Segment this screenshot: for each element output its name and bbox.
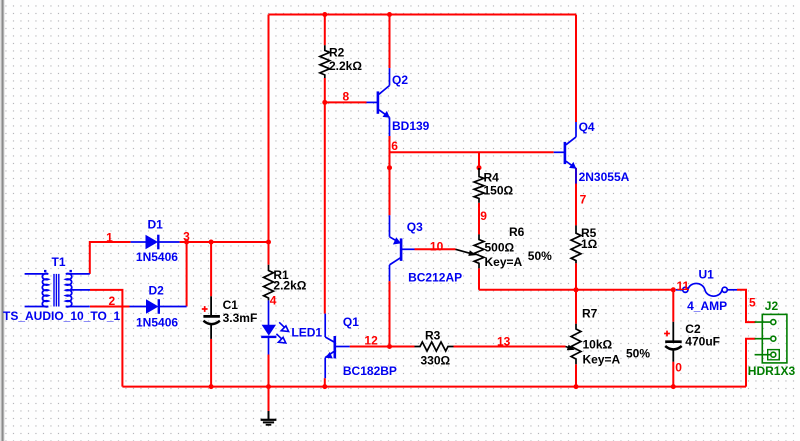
wire R5 bottom to net 11 xyxy=(575,263,577,290)
svg-text:LED1: LED1 xyxy=(291,326,322,340)
svg-text:5: 5 xyxy=(749,296,756,310)
resistor R5 xyxy=(571,225,581,263)
transistor Q3 (BC212AP PNP) xyxy=(390,215,415,281)
wire D2 cathode up to net 3 xyxy=(186,242,188,307)
svg-text:12: 12 xyxy=(364,333,378,347)
transistor Q1 (BC182BP NPN, mirrored) xyxy=(325,314,350,379)
node ground rail / C1 xyxy=(209,384,214,389)
svg-text:D1: D1 xyxy=(148,217,164,231)
transformer phase dots xyxy=(44,270,72,272)
node ground rail / LED1 xyxy=(266,384,271,389)
wire left vertical (net3 to top rail) xyxy=(268,15,270,265)
svg-text:8: 8 xyxy=(343,89,350,103)
wire net 7 (Q4 emitter to R5) xyxy=(575,168,577,225)
svg-text:R3: R3 xyxy=(425,329,441,343)
svg-text:R4: R4 xyxy=(484,171,500,185)
svg-text:50%: 50% xyxy=(626,347,650,361)
wire ground bottom rail xyxy=(122,386,746,388)
svg-text:0: 0 xyxy=(675,361,682,375)
svg-text:Q1: Q1 xyxy=(343,315,359,329)
svg-text:Key=A: Key=A xyxy=(583,353,621,367)
label Q2 xyxy=(392,73,430,133)
LED LED1 emission arrows xyxy=(276,322,288,343)
wire net 11 rail xyxy=(479,289,673,291)
connector J2 (HDR1X3) xyxy=(755,314,787,363)
node net6 Q3 branch xyxy=(387,165,392,170)
svg-text:4: 4 xyxy=(270,294,277,308)
svg-text:R2: R2 xyxy=(329,46,345,60)
node net12 Q3 collector xyxy=(387,344,392,349)
wire LED1 cathode to ground rail xyxy=(268,355,270,387)
wire Q3 collector down to net 12 xyxy=(389,281,391,346)
svg-text:HDR1X3: HDR1X3 xyxy=(748,364,796,378)
label R6 value xyxy=(485,225,553,269)
label Q3 xyxy=(407,220,462,284)
svg-text:500Ω: 500Ω xyxy=(485,240,515,254)
wire C2 bottom lead xyxy=(672,362,674,387)
wire Q4 collector from top rail xyxy=(575,15,577,123)
resistor R1 xyxy=(264,265,274,301)
svg-text:7: 7 xyxy=(580,192,587,206)
node top rail / Q2 collector xyxy=(387,12,392,17)
wire top positive rail xyxy=(269,14,577,16)
wire R2 top xyxy=(324,15,326,46)
node net6 R4 branch xyxy=(477,165,482,170)
capacitor C2 plus sign xyxy=(664,331,670,337)
svg-text:330Ω: 330Ω xyxy=(421,354,451,368)
label R3 value xyxy=(421,329,451,368)
wire Q1 emitter to ground rail xyxy=(324,378,326,386)
svg-text:2.2kΩ: 2.2kΩ xyxy=(273,279,306,293)
svg-text:D2: D2 xyxy=(149,284,165,298)
capacitor C1 xyxy=(203,296,220,339)
wire net 9 (R4 to R6) xyxy=(478,203,480,235)
svg-text:13: 13 xyxy=(497,334,511,348)
svg-text:Q2: Q2 xyxy=(392,73,408,87)
svg-text:150Ω: 150Ω xyxy=(484,183,514,197)
node net3 / D2 xyxy=(184,240,189,245)
svg-text:11: 11 xyxy=(677,279,690,293)
wire Q3 emitter to net 6 xyxy=(389,152,391,215)
wire R7 top xyxy=(575,290,577,324)
wire net 5 (fuse to J2 pin1) xyxy=(737,290,756,322)
transformer T1 xyxy=(25,274,90,307)
label R2 value xyxy=(329,46,362,73)
svg-text:BC212AP: BC212AP xyxy=(408,271,462,285)
LED LED1 xyxy=(261,300,276,354)
svg-text:U1: U1 xyxy=(699,267,715,281)
svg-text:10: 10 xyxy=(430,240,444,254)
transistor Q2 (BD139 NPN) xyxy=(367,68,390,136)
svg-text:T1: T1 xyxy=(52,255,66,269)
diode D1 xyxy=(131,235,180,250)
svg-text:2.2kΩ: 2.2kΩ xyxy=(329,59,362,73)
wire ground stub xyxy=(268,387,270,412)
svg-text:1N5406: 1N5406 xyxy=(136,250,178,264)
wire J2 pin2 to ground rail xyxy=(746,339,756,387)
wire C1 top lead xyxy=(210,242,212,296)
wire net 10 (Q3 base to R6 wiper) xyxy=(415,248,456,250)
wire net 8 (R2 bottom / Q2 base / Q1 collector) xyxy=(324,78,326,102)
potentiometer R6 wiper arrow xyxy=(456,249,477,256)
svg-text:470uF: 470uF xyxy=(685,334,720,348)
node net3 / R1 xyxy=(266,240,271,245)
wire C1 bottom lead xyxy=(210,339,212,387)
svg-text:1Ω: 1Ω xyxy=(581,237,598,251)
node net3 / C1 xyxy=(209,240,214,245)
svg-text:50%: 50% xyxy=(528,249,552,263)
svg-text:Q4: Q4 xyxy=(579,120,595,134)
svg-text:TS_AUDIO_10_TO_1: TS_AUDIO_10_TO_1 xyxy=(3,309,120,323)
svg-text:3.3mF: 3.3mF xyxy=(223,311,258,325)
label R1 value xyxy=(273,268,306,293)
ground xyxy=(261,411,277,425)
label Q4 xyxy=(579,120,630,184)
potentiometer R7 body xyxy=(571,324,581,365)
node net8 xyxy=(322,100,327,105)
svg-text:R6: R6 xyxy=(509,225,525,239)
potentiometer R6 body xyxy=(474,234,484,268)
svg-text:10kΩ: 10kΩ xyxy=(583,338,613,352)
svg-text:BC182BP: BC182BP xyxy=(343,364,397,378)
node ground rail / Q1 emitter xyxy=(322,384,327,389)
svg-text:6: 6 xyxy=(391,139,398,153)
capacitor C2 xyxy=(665,322,682,362)
svg-text:R7: R7 xyxy=(582,307,598,321)
node net11 C2/fuse xyxy=(671,287,676,292)
wire net 13 (R3 to R7 wiper) xyxy=(454,346,566,348)
label R4 value xyxy=(484,171,514,198)
resistor R2 xyxy=(320,45,330,78)
wire R4 top drop xyxy=(478,152,480,168)
window edge strip xyxy=(0,0,2,441)
label T1 xyxy=(3,255,120,323)
svg-text:J2: J2 xyxy=(765,299,779,313)
svg-text:2N3055A: 2N3055A xyxy=(579,170,630,184)
label R7 value xyxy=(582,307,650,367)
node ground rail / C2 xyxy=(671,384,676,389)
label R5 value xyxy=(581,226,598,251)
label U1 xyxy=(687,267,727,313)
fuse U1 xyxy=(676,283,737,296)
potentiometer R7 wiper arrow xyxy=(566,345,575,351)
capacitor C1 plus sign xyxy=(202,306,208,312)
transistor Q4 (2N3055A NPN) xyxy=(554,122,577,184)
resistor R4 xyxy=(474,168,484,203)
wire net 1 (T1 top to D1) xyxy=(90,242,131,274)
wire R6 bottom to net 11 rail xyxy=(478,268,480,290)
wire net 2 (T1 bottom to D2) xyxy=(90,306,130,308)
label Q1 xyxy=(343,315,397,378)
wire net 12 (Q1 base to R3) xyxy=(350,346,415,348)
svg-text:1: 1 xyxy=(106,230,113,244)
wire Q2 collector to rail xyxy=(389,15,391,69)
wire R7 bottom xyxy=(575,364,577,386)
svg-text:9: 9 xyxy=(480,209,487,223)
svg-text:BD139: BD139 xyxy=(392,119,430,133)
label C1 value xyxy=(223,298,258,325)
wire T1 centre tap to ground rail xyxy=(90,290,122,387)
svg-text:2: 2 xyxy=(109,294,116,308)
label D1 xyxy=(136,217,178,264)
wire C2 top lead xyxy=(672,290,674,322)
node ground rail / R7 xyxy=(574,384,579,389)
node net11 R5/R7 xyxy=(574,287,579,292)
node top rail / R2 xyxy=(322,12,327,17)
label C2 value xyxy=(685,322,720,349)
svg-text:3: 3 xyxy=(183,230,190,244)
svg-text:Key=A: Key=A xyxy=(485,255,523,269)
wire net 3 rail xyxy=(180,241,269,243)
label D2 xyxy=(136,284,178,330)
resistor R3 xyxy=(415,342,454,351)
svg-text:Q3: Q3 xyxy=(407,220,423,234)
wire Q2 emitter / net 6 rail xyxy=(390,136,554,152)
diode D2 xyxy=(130,299,187,314)
label J2 xyxy=(748,299,796,378)
svg-text:4_AMP: 4_AMP xyxy=(687,299,727,313)
svg-text:1N5406: 1N5406 xyxy=(136,315,178,329)
